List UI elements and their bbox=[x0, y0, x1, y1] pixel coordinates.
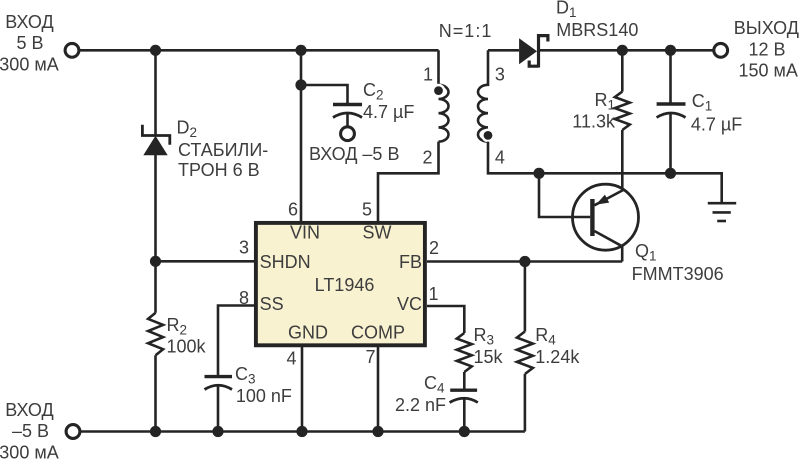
label: bottom input ВХОД -5 В 300 мА bbox=[0, 400, 59, 459]
svg-text:2: 2 bbox=[422, 148, 432, 168]
wire: R3 to C4 bbox=[463, 372, 466, 390]
wire: C1 top lead bbox=[669, 50, 672, 104]
svg-text:2: 2 bbox=[429, 238, 439, 258]
terminal: -5V input bbox=[66, 425, 80, 439]
wire: C2 branch bbox=[301, 85, 348, 105]
terminal: C2 to -5V input bbox=[341, 127, 355, 141]
label: ВЫХОД 12 В 150 мА bbox=[734, 18, 799, 81]
svg-text:VC: VC bbox=[397, 294, 422, 314]
svg-text:2.2 nF: 2.2 nF bbox=[395, 395, 446, 415]
svg-text:150 мА: 150 мА bbox=[739, 60, 798, 80]
wire: R1 bottom to Q1 emitter bbox=[594, 130, 622, 205]
node: top rail / VIN branch bbox=[295, 45, 306, 56]
wire: bottom -5V rail bbox=[80, 430, 525, 433]
wire: C3 to bottom rail bbox=[217, 386, 220, 432]
wire: Q1 collector to FB net bbox=[594, 231, 622, 262]
wire: D1 cathode to output terminal bbox=[540, 49, 714, 52]
wire: C4 to bottom rail bbox=[463, 398, 466, 432]
svg-text:SW: SW bbox=[363, 222, 392, 242]
node: rail / R2 bbox=[150, 426, 161, 437]
node: rail / C3 bbox=[212, 426, 223, 437]
capacitor C1 bbox=[657, 104, 686, 118]
svg-text:N=1:1: N=1:1 bbox=[439, 21, 493, 41]
wire: SHDN pin 3 bbox=[156, 260, 255, 263]
resistor R4 bbox=[517, 332, 533, 375]
transformer T1 secondary winding bbox=[478, 50, 488, 141]
wire: C1 bottom lead bbox=[669, 114, 672, 173]
resistor R3 bbox=[457, 333, 472, 372]
wire: C2 to terminal bbox=[346, 114, 349, 127]
svg-text:300 мА: 300 мА bbox=[0, 54, 59, 74]
svg-text:COMP: COMP bbox=[351, 323, 405, 343]
svg-text:7: 7 bbox=[365, 347, 375, 367]
svg-text:4: 4 bbox=[286, 349, 296, 369]
svg-text:ТРОН 6 В: ТРОН 6 В bbox=[178, 160, 260, 180]
capacitor C4 bbox=[450, 390, 478, 402]
phase dot: secondary bbox=[482, 130, 493, 141]
svg-text:MBRS140: MBRS140 bbox=[556, 20, 638, 40]
transistor Q1 bbox=[573, 184, 639, 250]
svg-text:LT1946: LT1946 bbox=[315, 275, 375, 295]
capacitor C3 bbox=[205, 377, 233, 390]
svg-text:ВЫХОД: ВЫХОД bbox=[734, 18, 799, 38]
svg-text:12 В: 12 В bbox=[749, 40, 786, 60]
terminal: output bbox=[714, 43, 728, 57]
wire: R4 top lead bbox=[524, 262, 527, 332]
svg-text:ВХОД: ВХОД bbox=[5, 12, 53, 32]
wire: GND pin 4 bbox=[301, 347, 304, 432]
arrowhead: Q1 emitter (PNP) bbox=[596, 195, 609, 205]
svg-text:100 nF: 100 nF bbox=[236, 386, 292, 406]
svg-text:GND: GND bbox=[288, 323, 328, 343]
node: SHDN junction bbox=[150, 256, 161, 267]
wire: primary pin2 to SW pin 5 bbox=[378, 142, 439, 221]
svg-text:3: 3 bbox=[239, 238, 249, 258]
phase dot: primary bbox=[433, 85, 444, 96]
svg-text:15k: 15k bbox=[474, 347, 504, 367]
svg-text:4: 4 bbox=[495, 148, 505, 168]
svg-text:FMMT3906: FMMT3906 bbox=[632, 264, 724, 284]
wire: VC pin to R3 bbox=[427, 306, 464, 333]
svg-text:ВХОД: ВХОД bbox=[5, 400, 53, 420]
zener diode D2 bbox=[142, 125, 169, 156]
svg-text:11.3k: 11.3k bbox=[572, 112, 616, 132]
terminal: +5V input bbox=[65, 43, 79, 57]
svg-text:4.7 µF: 4.7 µF bbox=[363, 102, 414, 122]
node: rail / C1 bbox=[665, 168, 676, 179]
svg-text:100k: 100k bbox=[167, 337, 207, 357]
capacitor C2 bbox=[333, 105, 362, 118]
wire: VIN branch vertical bbox=[300, 50, 303, 221]
node: rail / COMP pin bbox=[372, 426, 383, 437]
svg-text:VIN: VIN bbox=[290, 222, 320, 242]
svg-text:6: 6 bbox=[288, 200, 298, 220]
svg-text:1: 1 bbox=[429, 284, 439, 304]
svg-text:ВХОД –5 В: ВХОД –5 В bbox=[309, 144, 399, 164]
node: output / C1 bbox=[665, 45, 676, 56]
svg-text:–5 В: –5 В bbox=[12, 421, 49, 441]
svg-text:5 В: 5 В bbox=[16, 33, 43, 53]
svg-text:1.24k: 1.24k bbox=[535, 347, 580, 367]
ground symbol bbox=[708, 203, 736, 221]
node: C2 branch bbox=[295, 79, 306, 90]
resistor R2 bbox=[148, 313, 163, 356]
node: FB / R4 bbox=[519, 256, 530, 267]
resistor R1 bbox=[615, 92, 630, 130]
svg-text:300 мА: 300 мА bbox=[0, 442, 59, 459]
diode D1 Schottky bbox=[519, 34, 548, 68]
wire: FB net horizontal bbox=[427, 260, 622, 263]
node: rail / Q1 base bbox=[533, 168, 544, 179]
transformer T1 primary winding bbox=[439, 50, 449, 141]
wire: COMP pin 7 bbox=[377, 347, 380, 432]
svg-text:3: 3 bbox=[495, 65, 505, 85]
svg-text:5: 5 bbox=[362, 199, 372, 219]
IC U1 LT1946 body bbox=[256, 223, 425, 345]
label: input ВХОД 5 В 300 мА bbox=[0, 12, 59, 74]
wire: secondary return rail to ground bbox=[488, 142, 722, 203]
svg-text:СТАБИЛИ-: СТАБИЛИ- bbox=[178, 140, 268, 160]
wire: Q1 base bbox=[539, 173, 590, 217]
wire: secondary pin3 to D1 anode bbox=[488, 49, 519, 52]
node: output / R1 bbox=[617, 45, 628, 56]
svg-text:1: 1 bbox=[423, 64, 433, 84]
wire: top +5V rail bbox=[79, 49, 439, 52]
wire: R2 to bottom rail bbox=[154, 355, 157, 431]
wire: R4 to bottom rail corner bbox=[524, 374, 527, 432]
svg-text:SHDN: SHDN bbox=[260, 252, 311, 272]
node: top rail / D2 branch bbox=[150, 45, 161, 56]
wire: D2 to SHDN node to R2 bbox=[154, 153, 157, 313]
wire: R1 top lead bbox=[621, 50, 624, 91]
svg-text:FB: FB bbox=[399, 252, 422, 272]
node: rail / C4 bbox=[459, 426, 470, 437]
svg-text:4.7 µF: 4.7 µF bbox=[691, 115, 742, 135]
svg-text:SS: SS bbox=[260, 294, 284, 314]
wire: D2 branch upper bbox=[154, 50, 157, 135]
node: rail / GND pin bbox=[296, 426, 307, 437]
wire: SS pin to C3 bbox=[218, 306, 254, 377]
